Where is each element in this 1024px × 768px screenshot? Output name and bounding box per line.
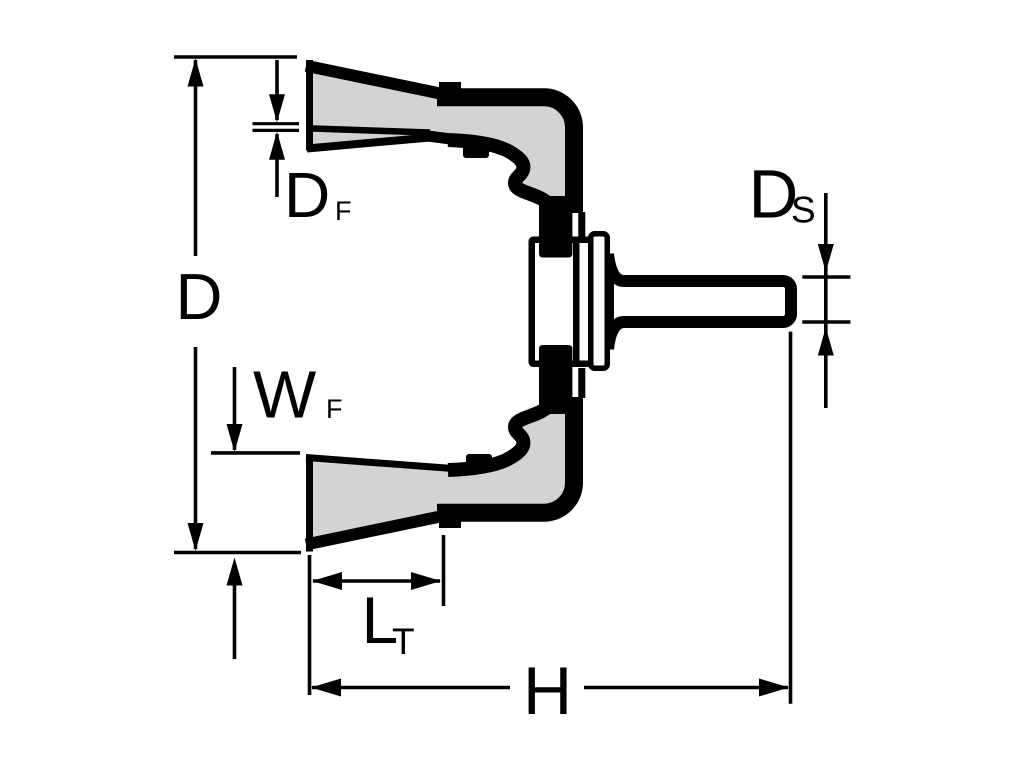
svg-text:D: D xyxy=(176,260,223,333)
svg-text:D: D xyxy=(284,159,330,231)
svg-text:W: W xyxy=(253,358,317,433)
svg-text:T: T xyxy=(392,621,415,662)
svg-text:S: S xyxy=(791,189,816,230)
svg-text:F: F xyxy=(335,196,352,226)
svg-text:F: F xyxy=(326,394,343,424)
svg-text:H: H xyxy=(523,653,572,729)
